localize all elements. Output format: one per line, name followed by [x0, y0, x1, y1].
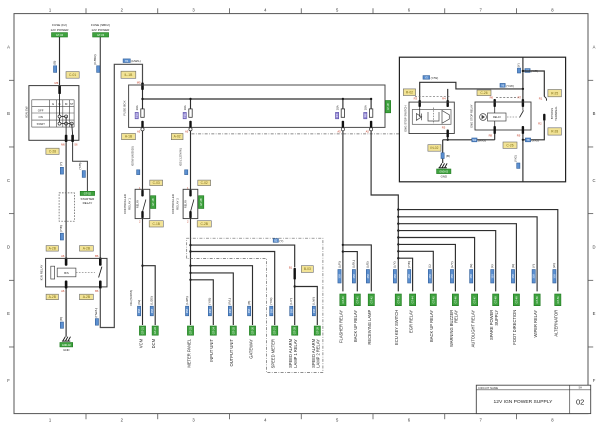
svg-text:R2: R2 [538, 121, 542, 125]
svg-text:GT-50: GT-50 [535, 296, 539, 304]
svg-text:(Y/B): (Y/B) [407, 261, 411, 268]
svg-text:(L/Y): (L/Y) [393, 261, 397, 268]
svg-text:GT-24: GT-24 [211, 326, 215, 334]
svg-text:E: E [7, 311, 10, 316]
svg-text:GT-40: GT-40 [341, 296, 345, 304]
svg-text:35B: 35B [408, 274, 411, 279]
svg-text:GT-2B: GT-2B [199, 198, 203, 206]
svg-text:IN-02: IN-02 [430, 146, 438, 150]
svg-text:35B: 35B [339, 274, 342, 279]
svg-text:(B): (B) [247, 301, 251, 305]
svg-text:12V IGN POWER SUPPLY: 12V IGN POWER SUPPLY [494, 399, 554, 405]
svg-text:F15: F15 [135, 113, 139, 118]
svg-text:F7: F7 [335, 114, 339, 118]
svg-text:(L): (L) [428, 264, 432, 268]
svg-text:(Y/R): (Y/R) [269, 298, 273, 305]
svg-text:FUSE (SBF2): FUSE (SBF2) [91, 23, 110, 27]
svg-text:C-28: C-28 [49, 149, 56, 153]
svg-text:IL-1B: IL-1B [124, 73, 133, 77]
svg-text:C-26: C-26 [506, 143, 513, 147]
svg-text:B-03: B-03 [304, 267, 311, 271]
svg-text:(B): (B) [446, 154, 450, 158]
svg-text:GND: GND [441, 175, 447, 179]
svg-text:IGN RELAY: IGN RELAY [40, 265, 44, 281]
svg-text:C-1B: C-1B [152, 222, 160, 226]
svg-text:10A: 10A [335, 105, 339, 110]
svg-text:02: 02 [576, 398, 584, 407]
svg-text:GND: GND [63, 348, 69, 352]
svg-text:GT-49: GT-49 [514, 296, 518, 304]
svg-text:CONTROLLER: CONTROLLER [171, 194, 175, 214]
svg-text:A-1B: A-1B [125, 135, 133, 139]
svg-text:GT-48: GT-48 [494, 296, 498, 304]
svg-text:A: A [593, 45, 596, 50]
svg-text:C-2B: C-2B [200, 222, 208, 226]
svg-text:GT-1B: GT-1B [388, 103, 390, 110]
svg-text:GT-25: GT-25 [231, 326, 235, 334]
svg-text:GT-21: GT-21 [141, 326, 145, 334]
svg-text:12V POWER: 12V POWER [50, 28, 69, 32]
svg-text:BACK UP RELAY: BACK UP RELAY [353, 310, 358, 342]
svg-text:AUTOLIGHT RELAY: AUTOLIGHT RELAY [470, 310, 475, 348]
svg-text:35B: 35B [209, 308, 212, 313]
svg-text:LAMP 1 RELAY: LAMP 1 RELAY [293, 339, 298, 368]
svg-text:GND-02: GND-02 [62, 344, 71, 347]
svg-text:GND-03: GND-03 [439, 170, 448, 173]
svg-text:F: F [7, 378, 10, 383]
svg-text:10A: 10A [183, 105, 187, 110]
svg-text:(L/Y): (L/Y) [450, 261, 454, 268]
svg-text:IGSW (W/2010): IGSW (W/2010) [130, 146, 134, 166]
svg-text:RELAY: RELAY [83, 201, 93, 205]
svg-text:IGN SW: IGN SW [25, 106, 29, 117]
svg-text:METER PANEL: METER PANEL [186, 338, 191, 367]
svg-text:A5: A5 [337, 130, 341, 134]
svg-text:35B: 35B [353, 274, 356, 279]
svg-text:GT-42: GT-42 [369, 296, 373, 304]
svg-text:(B): (B) [59, 317, 63, 321]
svg-text:BYPASS: BYPASS [550, 108, 554, 119]
svg-text:35B: 35B [248, 308, 251, 313]
svg-text:(L): (L) [490, 264, 494, 268]
svg-text:ECU KEY SWITCH: ECU KEY SWITCH [394, 310, 399, 345]
svg-text:CONTROLLER: CONTROLLER [123, 194, 127, 214]
svg-text:GT-04: GT-04 [56, 33, 64, 37]
svg-text:RELAY: RELAY [454, 310, 459, 323]
svg-text:35B: 35B [290, 308, 293, 313]
svg-text:INPUT UNIT: INPUT UNIT [209, 339, 214, 362]
svg-text:R8: R8 [489, 134, 493, 138]
svg-text:(HW/L): (HW/L) [94, 308, 98, 318]
svg-text:DCM: DCM [151, 338, 156, 348]
svg-text:RECEIVING LAMP: RECEIVING LAMP [367, 310, 372, 345]
svg-text:35B: 35B [533, 274, 536, 279]
svg-text:(Y): (Y) [532, 264, 536, 268]
svg-text:(Y): (Y) [279, 239, 283, 243]
svg-text:A6: A6 [61, 289, 65, 293]
svg-text:35B: 35B [512, 274, 515, 279]
svg-text:ST: ST [70, 102, 74, 106]
svg-text:GT-22: GT-22 [153, 326, 157, 334]
svg-text:SH: SH [578, 387, 582, 390]
svg-text:A5: A5 [366, 130, 370, 134]
svg-text:F11: F11 [183, 113, 187, 118]
svg-text:35B: 35B [429, 274, 432, 279]
svg-text:D: D [592, 245, 595, 250]
svg-text:F: F [593, 378, 596, 383]
svg-text:TERMINAL: TERMINAL [554, 106, 558, 121]
svg-text:R-25: R-25 [551, 91, 558, 95]
svg-text:(Y/B): (Y/B) [59, 225, 63, 232]
svg-text:C-03: C-03 [153, 181, 160, 185]
svg-text:35B: 35B [313, 308, 316, 313]
svg-text:(L/2B): (L/2B) [150, 296, 154, 304]
svg-text:ALTERNATOR: ALTERNATOR [554, 310, 559, 337]
svg-text:A5: A5 [137, 130, 141, 134]
svg-text:BACK UP RELAY: BACK UP RELAY [429, 310, 434, 342]
svg-text:35B: 35B [470, 274, 473, 279]
svg-text:(L/Y): (L/Y) [289, 298, 293, 305]
svg-text:GT-51: GT-51 [556, 296, 560, 304]
svg-text:(Y/W): (Y/W) [431, 76, 439, 80]
svg-text:12V POWER: 12V POWER [91, 28, 110, 32]
svg-text:GT-28: GT-28 [293, 326, 297, 334]
svg-text:(0.85R): (0.85R) [93, 54, 97, 64]
svg-text:R9: R9 [517, 134, 521, 138]
svg-text:M6: M6 [61, 142, 65, 146]
svg-text:E: E [593, 311, 596, 316]
svg-text:C: C [7, 178, 10, 183]
svg-text:GT-47: GT-47 [473, 296, 477, 304]
svg-text:(Y/B): (Y/B) [208, 298, 212, 305]
svg-text:GATEWAY: GATEWAY [248, 339, 253, 359]
svg-text:GT-46: GT-46 [453, 296, 457, 304]
svg-text:(W): (W) [137, 300, 141, 305]
svg-text:R3: R3 [414, 97, 418, 101]
svg-text:GT-02: GT-02 [84, 192, 92, 196]
svg-text:GT-45: GT-45 [431, 296, 435, 304]
svg-text:LAMP 2 RELAY: LAMP 2 RELAY [315, 339, 320, 368]
svg-text:35B: 35B [229, 308, 232, 313]
svg-text:FUSE (F2): FUSE (F2) [52, 23, 67, 27]
svg-text:(HW/L): (HW/L) [131, 59, 141, 63]
svg-text:(L/W): (L/W) [312, 297, 316, 305]
svg-text:A5: A5 [185, 130, 189, 134]
svg-text:B6: B6 [95, 254, 99, 258]
svg-text:20A: 20A [135, 105, 139, 110]
svg-text:GT-1B: GT-1B [151, 198, 155, 206]
svg-text:R-28: R-28 [551, 130, 558, 134]
svg-text:R-02: R-02 [406, 90, 413, 94]
svg-text:A-2B: A-2B [83, 246, 91, 250]
svg-text:C-26: C-26 [480, 91, 487, 95]
svg-text:EGR RELAY: EGR RELAY [408, 310, 413, 333]
svg-text:(L/BL): (L/BL) [352, 260, 356, 268]
svg-text:VCM: VCM [138, 338, 143, 348]
svg-text:A-2B: A-2B [83, 295, 91, 299]
svg-text:M5: M5 [137, 80, 141, 84]
svg-text:(L/R): (L/R) [337, 261, 341, 268]
svg-text:F8: F8 [363, 114, 367, 118]
svg-text:C: C [592, 178, 595, 183]
svg-text:R7: R7 [518, 96, 522, 100]
svg-text:GT-03: GT-03 [97, 33, 105, 37]
svg-text:A-2B: A-2B [49, 246, 57, 250]
svg-text:35B: 35B [394, 274, 397, 279]
svg-text:FLASHER RELAY: FLASHER RELAY [339, 310, 344, 343]
svg-text:(L/2B): (L/2B) [185, 296, 189, 304]
svg-text:GT-26: GT-26 [251, 326, 255, 334]
svg-text:(W/G): (W/G) [478, 139, 486, 143]
svg-text:SUPPLY: SUPPLY [494, 310, 499, 326]
svg-text:(B): (B) [52, 61, 56, 65]
svg-text:ENG STOP RELAY: ENG STOP RELAY [469, 104, 473, 127]
svg-text:D: D [7, 245, 10, 250]
svg-text:GT-27: GT-27 [273, 326, 277, 334]
svg-text:B6: B6 [95, 289, 99, 293]
svg-text:S6: S6 [74, 142, 78, 146]
svg-text:C-02: C-02 [201, 181, 208, 185]
svg-text:(L/B): (L/B) [366, 261, 370, 268]
svg-text:M6: M6 [54, 81, 58, 85]
svg-text:B: B [7, 111, 10, 116]
svg-text:C-01: C-01 [69, 73, 76, 77]
svg-text:RELAY 2: RELAY 2 [176, 198, 180, 210]
svg-text:RELAY: RELAY [184, 200, 188, 209]
svg-text:35B: 35B [451, 274, 454, 279]
svg-text:(G): (G) [469, 264, 473, 268]
svg-text:(Y/G): (Y/G) [513, 155, 517, 162]
svg-text:35B: 35B [151, 308, 154, 313]
svg-text:A6: A6 [61, 254, 65, 258]
svg-text:R4: R4 [442, 97, 446, 101]
svg-text:R6: R6 [490, 96, 494, 100]
svg-text:35B: 35B [186, 308, 189, 313]
svg-text:10A: 10A [364, 105, 368, 110]
svg-text:35B: 35B [367, 274, 370, 279]
svg-text:A-2B: A-2B [49, 295, 57, 299]
svg-text:ENG STOP SWITCH: ENG STOP SWITCH [404, 105, 408, 131]
svg-text:CIRCUIT NAME: CIRCUIT NAME [478, 386, 498, 390]
svg-text:(Y/G): (Y/G) [532, 139, 539, 143]
svg-text:(W): (W) [552, 263, 556, 268]
svg-text:GT-23: GT-23 [189, 326, 193, 334]
svg-text:(R/L): (R/L) [228, 298, 232, 305]
svg-text:GT-29: GT-29 [315, 326, 319, 334]
svg-text:A: A [7, 45, 10, 50]
svg-text:(Y): (Y) [517, 63, 521, 67]
svg-text:WIPER RELAY: WIPER RELAY [533, 310, 538, 338]
svg-text:B1: B1 [289, 266, 293, 270]
svg-text:(Y): (Y) [59, 162, 63, 166]
svg-text:ON: ON [39, 115, 43, 119]
svg-text:OUTPUT UNIT: OUTPUT UNIT [229, 339, 234, 367]
svg-text:RELAY: RELAY [136, 200, 140, 209]
svg-text:OFF: OFF [38, 108, 44, 112]
svg-text:RELAY: RELAY [493, 116, 501, 119]
svg-text:RELAY 1: RELAY 1 [128, 198, 132, 210]
svg-text:B: B [593, 111, 596, 116]
svg-text:R1: R1 [539, 96, 543, 100]
svg-text:35B: 35B [138, 308, 141, 313]
svg-text:35B: 35B [553, 274, 556, 279]
svg-text:GT-41: GT-41 [355, 296, 359, 304]
svg-text:(Y/B): (Y/B) [78, 163, 82, 170]
svg-text:START: START [37, 122, 46, 126]
svg-text:B/S: B/S [64, 271, 69, 275]
svg-text:FOOT DIRECTION: FOOT DIRECTION [512, 310, 517, 345]
svg-text:A-02: A-02 [174, 135, 181, 139]
svg-text:35B: 35B [270, 308, 273, 313]
svg-text:(Y/W): (Y/W) [506, 84, 514, 88]
svg-text:GT-43: GT-43 [396, 296, 400, 304]
svg-text:FUSE BOX: FUSE BOX [123, 100, 127, 115]
svg-text:GT-44: GT-44 [411, 296, 415, 304]
svg-text:35B: 35B [491, 274, 494, 279]
svg-text:DG (W/DTA): DG (W/DTA) [129, 290, 133, 306]
svg-text:R5: R5 [442, 126, 446, 130]
svg-text:SPEED METER: SPEED METER [271, 339, 276, 368]
svg-text:IG5 (1.25Y/W): IG5 (1.25Y/W) [178, 148, 182, 166]
svg-text:(R): (R) [511, 264, 515, 268]
